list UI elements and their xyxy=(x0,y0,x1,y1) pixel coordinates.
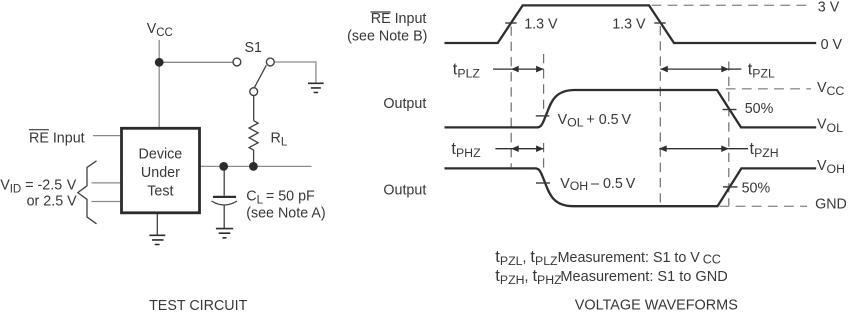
svg-text:VOL + 0.5 V: VOL + 0.5 V xyxy=(558,112,632,129)
svg-text:or 2.5 V: or 2.5 V xyxy=(27,194,78,210)
svg-text:3 V: 3 V xyxy=(818,0,840,15)
svg-text:(see Note B): (see Note B) xyxy=(347,28,427,44)
svg-text:S1: S1 xyxy=(245,40,263,56)
svg-text:Measurement: S1 to V CC: Measurement: S1 to V CC xyxy=(558,250,721,266)
svg-text:VOH – 0.5 V: VOH – 0.5 V xyxy=(560,176,636,193)
svg-text:1.3 V: 1.3 V xyxy=(524,17,558,33)
svg-text:Output: Output xyxy=(383,182,426,198)
svg-text:1.3 V: 1.3 V xyxy=(612,17,646,33)
svg-text:CL = 50 pF: CL = 50 pF xyxy=(246,189,315,207)
svg-text:RE Input: RE Input xyxy=(29,130,85,146)
svg-text:50%: 50% xyxy=(742,180,771,196)
svg-text:Measurement: S1 to GND: Measurement: S1 to GND xyxy=(560,269,727,285)
svg-text:RE Input: RE Input xyxy=(371,11,427,27)
svg-text:Output: Output xyxy=(383,96,426,112)
svg-text:50%: 50% xyxy=(745,101,774,117)
svg-text:Under: Under xyxy=(141,165,180,181)
svg-text:VOLTAGE WAVEFORMS: VOLTAGE WAVEFORMS xyxy=(575,298,738,312)
svg-text:0 V: 0 V xyxy=(821,37,843,53)
svg-text:Device: Device xyxy=(139,146,183,162)
svg-text:GND: GND xyxy=(815,196,847,212)
svg-text:TEST CIRCUIT: TEST CIRCUIT xyxy=(149,298,247,312)
svg-text:Test: Test xyxy=(147,183,173,199)
svg-text:(see Note A): (see Note A) xyxy=(246,206,325,222)
